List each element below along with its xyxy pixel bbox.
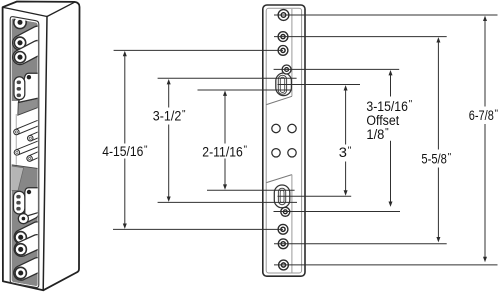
svg-text:": " [495,108,499,119]
svg-text:1/8: 1/8 [366,127,384,142]
svg-text:3-15/16: 3-15/16 [366,99,408,114]
pivot roller cap [18,214,28,224]
dim 6-7/8 [483,16,487,21]
upper wedge [18,98,38,115]
bracket 1 keeper oblong [14,77,25,100]
ext line bcircle [274,211,401,213]
roller 1 [13,26,45,50]
plate hole D [278,224,288,234]
top keyhole slot [276,73,292,96]
middle 4 holes [272,124,280,132]
lower light wedge [12,166,24,191]
svg-text:3: 3 [339,145,347,160]
svg-text:": " [244,145,248,156]
svg-text:": " [348,145,352,156]
pocket diagonal upper [266,96,292,104]
ext line bslot low [158,201,297,203]
svg-text:": " [182,109,186,120]
dim 4-15/16 [123,51,127,56]
side face top edge [47,2,75,16]
svg-text:6-7/8: 6-7/8 [469,108,494,123]
pins [14,121,40,135]
roller 5 [14,258,45,281]
roller 4 [14,235,44,257]
ext line keyhole circle [274,68,400,70]
channel opening outline on top [10,17,39,288]
ext line hole F [274,264,498,266]
dim 5-5/8 [436,37,440,42]
svg-text:4-15/16: 4-15/16 [102,144,143,159]
bottom slot [274,185,290,208]
svg-text:5-5/8: 5-5/8 [421,151,447,166]
ext line hole D [113,228,283,230]
ext line hole B [274,36,447,38]
top grommet disc [14,16,26,28]
svg-text:": " [448,152,452,163]
svg-text:2-11/16: 2-11/16 [202,144,243,159]
ext line slot low [198,89,292,91]
plate hole C [278,46,288,56]
ext line slot mid [278,84,361,86]
plate hole F [279,260,289,270]
bracket 2 keeper oblong [14,191,25,214]
bracket 2 box [25,188,39,217]
plate hole A [278,10,289,21]
svg-text:Offset: Offset [366,113,399,128]
ext line hole A [274,14,498,16]
ext line hole C [114,49,283,51]
bracket 1 box [19,73,39,102]
roller 3 [14,222,44,244]
svg-text:": " [409,99,413,110]
dim 3-15/16 [389,70,393,75]
ext line bslot top [207,189,295,191]
ext line bslot mid [278,195,352,197]
roller 2 [13,40,45,64]
plate hole B [278,32,288,42]
plate hole E [278,239,288,249]
strike plate front view [263,5,305,276]
plate bend line upper [291,9,293,96]
light mid-section of channel [12,101,38,168]
3D keeper body [3,2,80,291]
pivot roller tube [18,209,38,224]
svg-text:": " [144,144,148,155]
dim 3in [344,85,348,90]
front face right edge [43,17,47,291]
svg-text:": " [385,127,389,138]
ext line slot top [158,77,297,79]
dim 3-1/2 [167,79,171,84]
dim 2-11/16 [223,91,227,96]
svg-text:3-1/2: 3-1/2 [153,109,182,124]
plate bend line lower [291,175,293,273]
ext line hole E [274,243,447,245]
pocket diagonal lower [266,175,292,183]
top face front edge [3,7,47,16]
